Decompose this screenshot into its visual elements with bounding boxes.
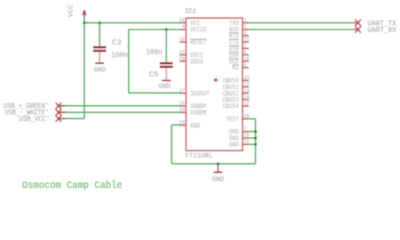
pin USBDP 15 (left) (179, 101, 206, 110)
svg-text:USB_VCC': USB_VCC' (19, 116, 50, 124)
pin CBUS4 12 (right) (223, 101, 250, 110)
ground GND of C2 (94, 63, 106, 73)
svg-text:GND: GND (159, 83, 171, 90)
pin CBUS0 23 (right) (223, 75, 250, 84)
node UART_RX flag (353, 26, 361, 32)
pin TEST 26 (right) (226, 114, 249, 123)
label USB_+_GREEN (3, 103, 49, 111)
svg-text:C2: C2 (112, 39, 122, 47)
svg-text:2: 2 (244, 43, 247, 49)
svg-text:GND: GND (212, 176, 224, 183)
op-amp U1 IC2 FT232RL box (186, 18, 243, 151)
pin RXD 5 (right) (229, 24, 249, 33)
label UART_RX (368, 27, 397, 35)
label USB_VCC (19, 116, 50, 124)
svg-text:11: 11 (244, 37, 249, 43)
wire USBDP (59, 105, 181, 107)
svg-text:21: 21 (244, 139, 249, 145)
svg-text:USBDM: USBDM (190, 110, 206, 117)
capacitor C5 (146, 30, 173, 80)
supply VCC symbol (67, 4, 86, 22)
pin DSR 9 (right) (229, 50, 249, 59)
label USB_-_WHITE (5, 110, 49, 118)
wire TEST to GND riser (249, 119, 256, 164)
svg-text:VCCIO: VCCIO (190, 27, 206, 34)
pin USBDM 16 (left) (179, 107, 206, 116)
node C2 junction (98, 21, 101, 24)
svg-text:FT232RL: FT232RL (185, 152, 213, 160)
svg-text:10: 10 (244, 56, 249, 62)
svg-text:28: 28 (179, 56, 184, 62)
svg-text:UART_RX: UART_RX (368, 27, 397, 35)
wire GND pin 18 (249, 137, 257, 140)
svg-text:RI: RI (232, 65, 239, 72)
svg-text:4: 4 (182, 24, 185, 30)
node C5 junction (165, 28, 168, 31)
svg-text:RESET: RESET (190, 39, 206, 46)
wire RXD to UART_RX (249, 29, 353, 31)
svg-text:GND: GND (94, 67, 106, 74)
wire AGND pin 25 (172, 125, 181, 164)
pin RTS 3 (right) (229, 30, 249, 39)
svg-text:VCC: VCC (67, 4, 74, 17)
svg-text:C5: C5 (149, 71, 159, 79)
pin VCC 20 (left) (179, 18, 200, 27)
pin RESET 19 (left) (179, 37, 206, 46)
label FT232RL (185, 152, 213, 160)
svg-text:1: 1 (244, 18, 247, 24)
pin CBUS3 14 (right) (223, 94, 250, 103)
svg-text:23: 23 (244, 75, 249, 81)
svg-text:26: 26 (244, 114, 249, 120)
pin CBUS1 22 (right) (223, 82, 250, 91)
svg-text:12: 12 (244, 101, 249, 107)
pin GND 21 (right) (229, 139, 249, 148)
pin 3V3OUT 17 (left) (179, 88, 209, 97)
wire GND pin 7 (249, 130, 257, 133)
pin OSCO 28 (left) (179, 56, 203, 65)
label IC2 (185, 8, 196, 16)
svg-text:5: 5 (244, 24, 247, 30)
svg-text:OSCO: OSCO (190, 58, 203, 65)
svg-text:GND: GND (190, 122, 200, 129)
svg-text:7: 7 (244, 126, 247, 132)
wire USBDM (59, 111, 181, 113)
wire VCCIO (129, 29, 181, 31)
svg-text:100n: 100n (111, 52, 128, 60)
svg-text:CBUS4: CBUS4 (223, 103, 239, 110)
svg-text:100n: 100n (146, 49, 163, 57)
node USB_+_GREEN flag (56, 103, 66, 109)
node UART_TX flag (353, 20, 361, 26)
wire bottom GND bus (172, 163, 256, 165)
svg-text:TEST: TEST (226, 116, 239, 123)
pin DTR 2 (right) (229, 43, 249, 52)
wire VCC top (84, 22, 180, 24)
pin VCCIO 4 (left) (180, 24, 207, 33)
pin OSCI 27 (left) (179, 50, 203, 59)
pin GND 25 (left) (179, 120, 200, 129)
svg-text:19: 19 (179, 37, 184, 43)
wire GND pin 21 (249, 143, 257, 146)
ground GND of C5 (159, 81, 171, 90)
node VCC junction (83, 21, 86, 24)
svg-text:Ωsmocom Camp Cable: Ωsmocom Camp Cable (22, 180, 122, 192)
svg-text:IC2: IC2 (185, 8, 196, 16)
svg-text:9: 9 (244, 50, 247, 56)
wire TXD to UART_TX (249, 22, 353, 24)
node USB_-_WHITE flag (56, 109, 66, 115)
svg-text:27: 27 (179, 50, 184, 56)
svg-text:3V3OUT: 3V3OUT (190, 90, 209, 97)
label UART_TX (368, 20, 397, 28)
svg-text:18: 18 (244, 133, 249, 139)
capacitor C2 (93, 23, 128, 63)
pin RI 6 (right) (232, 62, 249, 71)
svg-text:13: 13 (244, 88, 249, 94)
pin CBUS2 13 (right) (223, 88, 250, 97)
svg-text:22: 22 (244, 82, 249, 88)
pin TXD 1 (right) (229, 18, 249, 27)
node USB_VCC flag (56, 115, 66, 121)
svg-text:14: 14 (244, 94, 249, 100)
svg-text:3: 3 (244, 30, 247, 36)
pin CTS 11 (right) (229, 37, 249, 46)
pin DCD 10 (right) (229, 56, 249, 65)
svg-text:GND: GND (229, 142, 239, 149)
pin GND 7 (right) (229, 126, 249, 135)
wire VCCIO to 3V3OUT (129, 30, 181, 93)
wire VCC riser to USB_VCC (59, 23, 85, 119)
pin GND 18 (right) (229, 133, 249, 142)
title Osmocom Camp Cable (22, 180, 122, 192)
ground GND bottom (212, 164, 224, 183)
svg-text:6: 6 (244, 62, 247, 68)
origin cross + (214, 78, 218, 82)
node GND junction (217, 162, 220, 165)
